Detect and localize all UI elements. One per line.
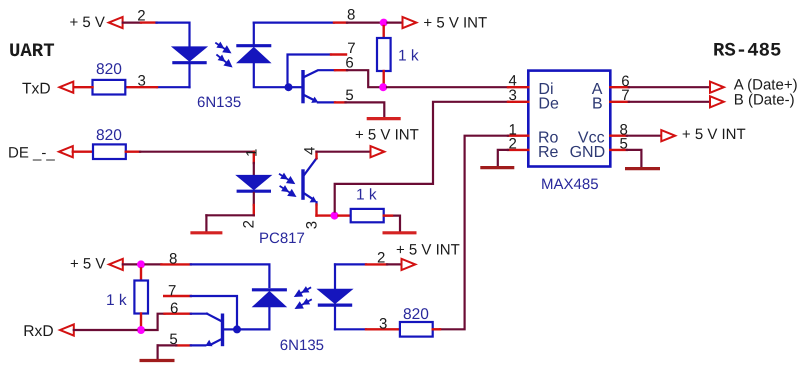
power arrow +5 V (top left) bbox=[109, 17, 123, 28]
svg-text:1: 1 bbox=[243, 149, 260, 157]
svg-text:+ 5 V INT: + 5 V INT bbox=[423, 15, 487, 32]
photodiode 6N135 #1 bbox=[236, 46, 271, 63]
node PC817 out bbox=[331, 212, 339, 220]
power arrow +5 V INT (mid) bbox=[371, 146, 385, 157]
pin label 3 (bottom) bbox=[379, 315, 387, 332]
pin label 5 (bottom) bbox=[169, 331, 177, 348]
transistor #2 collector bbox=[207, 314, 222, 322]
wire Ro route bbox=[440, 136, 508, 330]
port arrow RxD bbox=[60, 324, 74, 335]
resistor 1k (RxD pullup) bbox=[134, 281, 148, 314]
svg-text:DE _-_: DE _-_ bbox=[8, 145, 55, 162]
pin 1 stub MAX485 bbox=[508, 134, 528, 136]
svg-text:2: 2 bbox=[240, 220, 257, 228]
wire pin8 to PD2 bbox=[191, 264, 270, 287]
port arrow DE bbox=[59, 146, 73, 157]
resistor 1k (top pullup) bbox=[377, 38, 391, 71]
wire node right bbox=[146, 263, 162, 265]
svg-text:3: 3 bbox=[509, 87, 517, 104]
svg-text:820: 820 bbox=[96, 127, 122, 144]
svg-text:MAX485: MAX485 bbox=[541, 176, 599, 193]
transistor PC817 collector bbox=[303, 158, 317, 176]
pin label 8 (bottom) bbox=[169, 251, 177, 268]
photodiode 6N135 #2 bbox=[252, 290, 287, 307]
junction base #2 bbox=[233, 325, 241, 333]
pin 7 stub (6N135 #1) bbox=[331, 53, 346, 55]
svg-text:B: B bbox=[592, 95, 603, 112]
pin 4 stub MAX485 bbox=[508, 86, 528, 88]
label 1 k (mid) bbox=[356, 186, 377, 203]
wire pin8 to node bbox=[347, 22, 380, 24]
power +5 V (bottom) bbox=[70, 256, 105, 273]
pin label 2 (bottom) bbox=[377, 249, 385, 266]
wire base to PD2 bbox=[241, 328, 270, 330]
label 6N135 (bottom) bbox=[280, 337, 324, 354]
pin label 3 (PC817) bbox=[304, 221, 321, 229]
svg-text:1 k: 1 k bbox=[398, 47, 419, 64]
wire collector to Di node bbox=[347, 70, 379, 87]
wire node to 1k pulldown bbox=[339, 214, 351, 216]
pin label 5 bbox=[620, 136, 628, 153]
wire 820 to Ro route bbox=[433, 328, 440, 330]
svg-text:8: 8 bbox=[347, 6, 355, 23]
label TxD bbox=[22, 80, 51, 97]
pin label 3 bbox=[138, 73, 146, 90]
power label +5 V INT (bottom) bbox=[396, 242, 460, 259]
wire DE arrow to resistor bbox=[73, 150, 94, 152]
svg-text:TxD: TxD bbox=[22, 80, 51, 97]
label B (Date-) bbox=[734, 91, 795, 108]
power arrow +5 V INT (Vcc) bbox=[661, 130, 675, 141]
wire collector to +5V INT arrow bbox=[317, 151, 371, 153]
pin 3 stub (6N135 #1 LED cathode) bbox=[125, 86, 157, 88]
wire rail to pin8 bbox=[254, 22, 334, 24]
pin 5 stub (6N135 #2) bbox=[176, 344, 191, 346]
power arrow +5 V INT (bottom) bbox=[402, 259, 416, 270]
pin label 1 (PC817) bbox=[243, 149, 260, 157]
svg-text:B (Date-): B (Date-) bbox=[734, 91, 795, 108]
pin 3 stub (6N135 #2 LED) bbox=[366, 328, 400, 330]
wire pin7 to base bbox=[191, 296, 237, 326]
power arrow +5 V INT (top) bbox=[403, 17, 417, 28]
pin label 6 bbox=[621, 73, 629, 90]
svg-text:6: 6 bbox=[170, 300, 178, 317]
power +5 V (top left) bbox=[70, 14, 105, 31]
node Di bbox=[379, 83, 387, 91]
svg-text:2: 2 bbox=[137, 7, 145, 24]
wire B line bbox=[629, 101, 709, 103]
svg-text:3: 3 bbox=[304, 221, 321, 229]
pin 6 stub (6N135 #1 collector) bbox=[335, 69, 347, 71]
wire Re to ground bbox=[498, 150, 508, 166]
wire LED cathode down bbox=[253, 193, 255, 205]
pin name B bbox=[592, 95, 603, 112]
pin 8 stub (6N135 #2) bbox=[161, 263, 190, 265]
pin label 2 bbox=[509, 136, 517, 153]
ground (MAX485 Re) bbox=[480, 166, 514, 169]
pin label 7 (bottom) bbox=[168, 283, 176, 300]
pin name GND bbox=[570, 144, 606, 161]
label DE bbox=[8, 145, 55, 162]
ground (6N135 #2 emitter) bbox=[140, 359, 175, 362]
light arrows 6N135 #2 bbox=[294, 286, 312, 309]
svg-text:PC817: PC817 bbox=[259, 230, 305, 247]
transistor #2 emitter bbox=[191, 339, 222, 346]
port arrow TxD bbox=[60, 82, 74, 93]
label A (Date+) bbox=[734, 77, 798, 94]
pin 2 stub MAX485 bbox=[508, 149, 528, 151]
label PC817 bbox=[259, 230, 305, 247]
wire Di node to MAX485 pin4 bbox=[387, 86, 508, 88]
wire DE to PC817 anode bbox=[140, 151, 254, 153]
wire De route bbox=[335, 102, 508, 212]
transistor emitter bbox=[303, 95, 335, 103]
svg-text:GND: GND bbox=[570, 144, 606, 161]
pin name Vcc bbox=[578, 130, 605, 147]
svg-text:+ 5 V: + 5 V bbox=[70, 14, 105, 31]
wire cathode to ground bbox=[205, 215, 207, 231]
svg-text:UART: UART bbox=[9, 40, 55, 62]
light arrows PC817 bbox=[279, 173, 297, 197]
ground (DE pulldown) bbox=[383, 231, 417, 234]
pin 3 stub MAX485 bbox=[508, 101, 528, 103]
node +5V INT top bbox=[380, 19, 388, 27]
pin label 5 bbox=[345, 87, 353, 104]
wire +5V to pin2 bbox=[123, 22, 141, 24]
svg-text:RxD: RxD bbox=[23, 323, 53, 340]
wire node to 1k bbox=[383, 26, 385, 38]
ground (MAX485 GND) bbox=[625, 167, 660, 170]
wire node to arrow bbox=[388, 22, 404, 24]
pin 7 stub (6N135 #2) bbox=[164, 295, 191, 297]
resistor 820 DE bbox=[93, 144, 126, 159]
pin 5 stub MAX485 bbox=[610, 149, 627, 151]
wire LED1 to pin3 bbox=[157, 86, 190, 88]
wire node to 1k bbox=[140, 268, 142, 280]
wire A line bbox=[629, 86, 709, 88]
node RxD bbox=[137, 326, 145, 334]
pin stub DE resistor right bbox=[126, 150, 140, 152]
svg-text:De: De bbox=[538, 95, 559, 112]
transistor base lead bbox=[289, 86, 302, 88]
svg-text:3: 3 bbox=[138, 73, 146, 90]
pin 6 stub MAX485 bbox=[610, 86, 629, 88]
svg-text:1 k: 1 k bbox=[356, 186, 377, 203]
pin 8 stub MAX485 bbox=[610, 134, 627, 136]
svg-text:8: 8 bbox=[169, 251, 177, 268]
wire pin7 link bbox=[288, 55, 332, 85]
svg-text:+ 5 V: + 5 V bbox=[70, 256, 105, 273]
ground (PC817 cathode) bbox=[190, 231, 222, 234]
transistor 6N135 #2 base bar bbox=[221, 314, 224, 347]
wire +5V to node bbox=[123, 263, 137, 265]
port arrow A bbox=[710, 82, 724, 93]
wire GND to ground bbox=[627, 150, 642, 167]
label RxD bbox=[23, 323, 53, 340]
svg-text:2: 2 bbox=[509, 136, 517, 153]
pin 4 stub (PC817 collector) bbox=[315, 152, 317, 159]
wire pin2 to LED1 bbox=[157, 23, 190, 47]
wire anode lead bbox=[253, 163, 255, 175]
wire PD2 anode down bbox=[268, 306, 270, 330]
svg-text:820: 820 bbox=[96, 61, 122, 78]
label 6N135 (top) bbox=[197, 94, 241, 111]
pin name Ro bbox=[538, 130, 559, 147]
pin label 2 (PC817) bbox=[240, 220, 257, 228]
wire pin2 to arrow bbox=[387, 263, 402, 265]
wire pin6 to collector bbox=[191, 313, 207, 315]
LED 6N135 #1 input diode bbox=[172, 47, 206, 63]
pin label 7 bbox=[621, 87, 629, 104]
IC MAX485 body bbox=[528, 71, 610, 167]
transistor PC817 base bar bbox=[301, 169, 304, 200]
label UART bbox=[9, 40, 55, 62]
wire 1k to RxD node bbox=[140, 314, 142, 327]
power label +5 V INT (Vcc) bbox=[682, 126, 746, 143]
svg-text:6N135: 6N135 bbox=[280, 337, 324, 354]
svg-text:6N135: 6N135 bbox=[197, 94, 241, 111]
pin label 3 bbox=[509, 87, 517, 104]
wire Vcc line bbox=[627, 135, 662, 137]
node +5V bottom bbox=[137, 260, 145, 268]
svg-text:1 k: 1 k bbox=[106, 292, 127, 309]
wire emitter to ground bbox=[346, 102, 385, 116]
pin label 8 bbox=[347, 6, 355, 23]
power label +5 V INT (top) bbox=[423, 15, 487, 32]
svg-text:+ 5 V INT: + 5 V INT bbox=[682, 126, 746, 143]
wire 1k to ground bbox=[384, 216, 400, 231]
pin label 1 bbox=[509, 121, 517, 138]
label 820 (R TxD) bbox=[96, 61, 122, 78]
pin label 7 bbox=[347, 40, 355, 57]
power arrow +5 V (bottom) bbox=[109, 259, 123, 270]
pin 2 stub (6N135 #1 LED anode) bbox=[141, 21, 157, 23]
pin name Di bbox=[538, 81, 553, 98]
wire +5Vint rail left bbox=[253, 23, 255, 46]
LED 6N135 #2 input diode bbox=[318, 289, 352, 305]
pin 2 stub (PC817 cathode) bbox=[253, 205, 255, 215]
pin label 8 bbox=[620, 121, 628, 138]
transistor collector bbox=[303, 70, 335, 77]
pin 3 stub (PC817 emitter) bbox=[317, 205, 331, 216]
label 1 k (top) bbox=[398, 47, 419, 64]
label RS-485 bbox=[713, 40, 781, 62]
label 820 (R RxD) bbox=[403, 306, 429, 323]
svg-text:3: 3 bbox=[379, 315, 387, 332]
resistor 820 RxD bbox=[400, 322, 433, 337]
pin 8 stub (6N135 #1 Vcc) bbox=[334, 21, 347, 23]
wire LED1 cathode bbox=[188, 64, 190, 87]
label MAX485 bbox=[541, 176, 599, 193]
LED PC817 input diode bbox=[237, 175, 271, 191]
resistor 1k (DE pulldown) bbox=[351, 209, 384, 222]
svg-text:RS-485: RS-485 bbox=[713, 40, 781, 62]
wire cathode to ground corner bbox=[206, 214, 253, 216]
transistor 6N135 #1 base bar bbox=[301, 70, 304, 103]
pin name De bbox=[538, 95, 559, 112]
wire PD1 anode down bbox=[254, 63, 285, 87]
wire RxD to pin6 bbox=[146, 314, 165, 330]
svg-text:820: 820 bbox=[403, 306, 429, 323]
transistor #2 base lead bbox=[223, 328, 234, 330]
wire TxD arrow to resistor bbox=[73, 86, 92, 88]
port arrow B bbox=[710, 96, 724, 107]
ground (6N135 #1 emitter) bbox=[367, 117, 401, 120]
pin label 6 (bottom) bbox=[170, 300, 178, 317]
wire LED4 cathode bbox=[335, 307, 366, 330]
wire RxD arrow to node bbox=[74, 329, 137, 331]
wire 1k to Di node bbox=[383, 71, 385, 84]
power label +5 V INT (mid) bbox=[355, 127, 419, 144]
pin 1 stub (PC817 anode) bbox=[253, 152, 255, 163]
light arrows 6N135 #1 bbox=[215, 42, 232, 68]
junction PD1/base bbox=[285, 83, 293, 91]
wire ground stub bottom bbox=[158, 345, 177, 358]
pin 6 stub (6N135 #2) bbox=[165, 313, 191, 315]
label 820 (R DE) bbox=[96, 127, 122, 144]
svg-text:2: 2 bbox=[377, 249, 385, 266]
pin label 4 bbox=[509, 72, 517, 89]
resistor 820 TxD bbox=[93, 80, 126, 95]
svg-text:+ 5 V INT: + 5 V INT bbox=[396, 242, 460, 259]
pin name Re bbox=[538, 144, 559, 161]
svg-text:Re: Re bbox=[538, 144, 559, 161]
svg-text:+ 5 V INT: + 5 V INT bbox=[355, 127, 419, 144]
wire LED4 anode up bbox=[335, 264, 366, 289]
svg-text:7: 7 bbox=[168, 283, 176, 300]
pin 2 stub (6N135 #2 LED) bbox=[366, 263, 387, 265]
pin label 2 bbox=[137, 7, 145, 24]
pin 5 stub (6N135 #1 emitter) bbox=[335, 101, 346, 103]
label 1 k (bottom) bbox=[106, 292, 127, 309]
pin label 4 (PC817) bbox=[301, 147, 318, 155]
pin 7 stub MAX485 bbox=[610, 101, 629, 103]
pin label 6 bbox=[345, 55, 353, 72]
transistor PC817 emitter bbox=[303, 193, 317, 205]
pin name A bbox=[592, 81, 603, 98]
